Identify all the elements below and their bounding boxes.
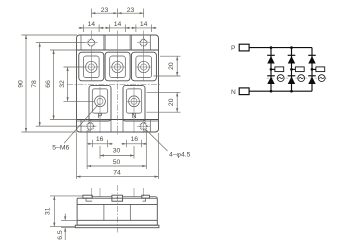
svg-text:23: 23	[127, 7, 135, 14]
diode D3	[288, 54, 296, 56]
svg-text:14: 14	[140, 21, 148, 28]
mounting hole top-left	[88, 39, 95, 46]
centerline column 1	[90, 31, 92, 82]
P terminal block inner	[92, 89, 107, 113]
dimension 66	[50, 50, 77, 120]
wire branch3	[311, 48, 313, 92]
wire branch1	[270, 48, 272, 92]
svg-text:30: 30	[113, 148, 121, 155]
node mid3	[311, 68, 314, 71]
AC terminal box 2	[295, 67, 304, 72]
side view body	[77, 198, 157, 225]
terminal block 2 outer	[105, 52, 130, 81]
P screw circle	[95, 96, 106, 107]
dimension 16 right	[121, 140, 146, 148]
svg-text:P: P	[98, 113, 103, 120]
node bot1	[270, 90, 273, 93]
svg-text:23: 23	[101, 7, 109, 14]
svg-text:4–φ4.5: 4–φ4.5	[169, 152, 191, 159]
side view centerline stubs	[90, 188, 92, 197]
AC source symbol 3	[318, 75, 325, 82]
dimension 14 block1	[79, 25, 105, 33]
dimension 78	[36, 43, 85, 127]
module horizontal centerline	[67, 83, 161, 85]
node top1	[270, 46, 273, 49]
dimension 30	[100, 146, 134, 159]
svg-text:5–M6: 5–M6	[52, 144, 69, 151]
svg-text:32: 32	[59, 80, 66, 88]
dimension 23 left	[91, 9, 143, 18]
svg-text:78: 78	[31, 80, 38, 88]
side view rim left	[83, 195, 92, 198]
screw terminal circle 1	[86, 61, 97, 72]
wire AC stub 1	[271, 68, 275, 70]
svg-text:6.5: 6.5	[57, 230, 64, 240]
svg-text:20: 20	[168, 98, 175, 106]
side view rim mid lines	[92, 196, 112, 198]
diode D2	[267, 75, 275, 77]
dimension 14 block2	[105, 25, 131, 33]
AC terminal box 1	[275, 67, 284, 72]
dimension 50	[87, 130, 146, 169]
centerline column 3	[143, 31, 145, 82]
side view divider left	[103, 204, 105, 220]
node top2	[290, 46, 293, 49]
svg-text:74: 74	[113, 169, 121, 176]
module outline top view	[77, 35, 159, 132]
node bot2	[290, 90, 293, 93]
side view rim notch right	[143, 198, 146, 201]
svg-text:20: 20	[168, 62, 175, 70]
wire AC stub 2	[292, 68, 296, 70]
leader 4-phi4.5	[146, 130, 168, 152]
wire branch2	[291, 48, 293, 92]
dimension 32	[64, 67, 95, 101]
side view lower line	[77, 219, 157, 221]
side view rim notch left	[86, 198, 92, 201]
svg-text:66: 66	[45, 80, 52, 88]
AC source symbol 1	[277, 75, 284, 82]
AC source symbol 2	[298, 75, 305, 82]
block gap lines bottom strip	[88, 120, 90, 132]
diode D1	[267, 54, 275, 56]
side view divider right	[129, 204, 131, 220]
svg-text:14: 14	[114, 21, 122, 28]
schematic: AC dashed line	[267, 77, 330, 79]
top flange line	[77, 49, 159, 51]
branch 2	[288, 46, 305, 92]
node mid2	[290, 68, 293, 71]
diode D6	[308, 75, 316, 77]
block gap lines top strip	[103, 35, 105, 50]
side view rim right	[142, 195, 150, 198]
terminal block 2 inner	[110, 56, 126, 78]
svg-text:P: P	[231, 45, 236, 52]
dimension 6.5	[61, 214, 80, 241]
node mid1	[270, 68, 273, 71]
diode D4	[288, 75, 296, 77]
svg-text:50: 50	[113, 159, 121, 166]
wire N rail	[249, 90, 312, 92]
corner boss lines	[80, 35, 82, 50]
N terminal block outer	[123, 86, 145, 121]
mounting hole top-right	[140, 39, 147, 46]
svg-text:N: N	[231, 89, 236, 96]
mounting hole bottom-right	[140, 123, 147, 130]
wire P rail	[249, 47, 312, 49]
side view rim mid screw boss	[112, 195, 123, 201]
terminal block 1 inner	[84, 56, 100, 78]
svg-text:31: 31	[44, 207, 51, 215]
terminal block 3 inner	[136, 56, 152, 78]
dimension 20 upper	[154, 56, 181, 76]
screw terminal circle 2	[112, 61, 123, 72]
terminal block 1 outer	[79, 52, 104, 81]
svg-text:16: 16	[131, 136, 139, 143]
branch 3	[308, 48, 325, 92]
AC terminal box 3	[316, 67, 325, 72]
mounting hole bottom-left	[87, 123, 94, 130]
dimension 14 block3	[131, 25, 157, 33]
centerline column mid	[117, 31, 119, 53]
side view baseplate	[75, 225, 159, 228]
N terminal block inner	[126, 89, 141, 113]
screw terminal circle 3	[138, 61, 149, 72]
module vertical centerline	[117, 52, 119, 135]
svg-text:N: N	[131, 113, 136, 120]
N screw circle	[129, 96, 140, 107]
leader 5-M6	[64, 104, 99, 143]
bottom flange line	[77, 119, 159, 121]
svg-text:14: 14	[88, 21, 96, 28]
dimension 16 left	[87, 140, 112, 148]
dimension 20 lower	[147, 92, 181, 112]
branch 1	[267, 46, 284, 92]
P terminal block outer	[89, 86, 111, 121]
dimension 90	[22, 35, 78, 132]
wire AC stub 3	[312, 68, 316, 70]
svg-text:90: 90	[17, 80, 24, 88]
dimension 74	[77, 133, 159, 179]
svg-text:16: 16	[96, 136, 104, 143]
side view top band line	[77, 203, 157, 205]
terminal block 3 outer	[131, 52, 156, 81]
diode D5	[308, 54, 316, 56]
dimension 31	[50, 196, 83, 227]
